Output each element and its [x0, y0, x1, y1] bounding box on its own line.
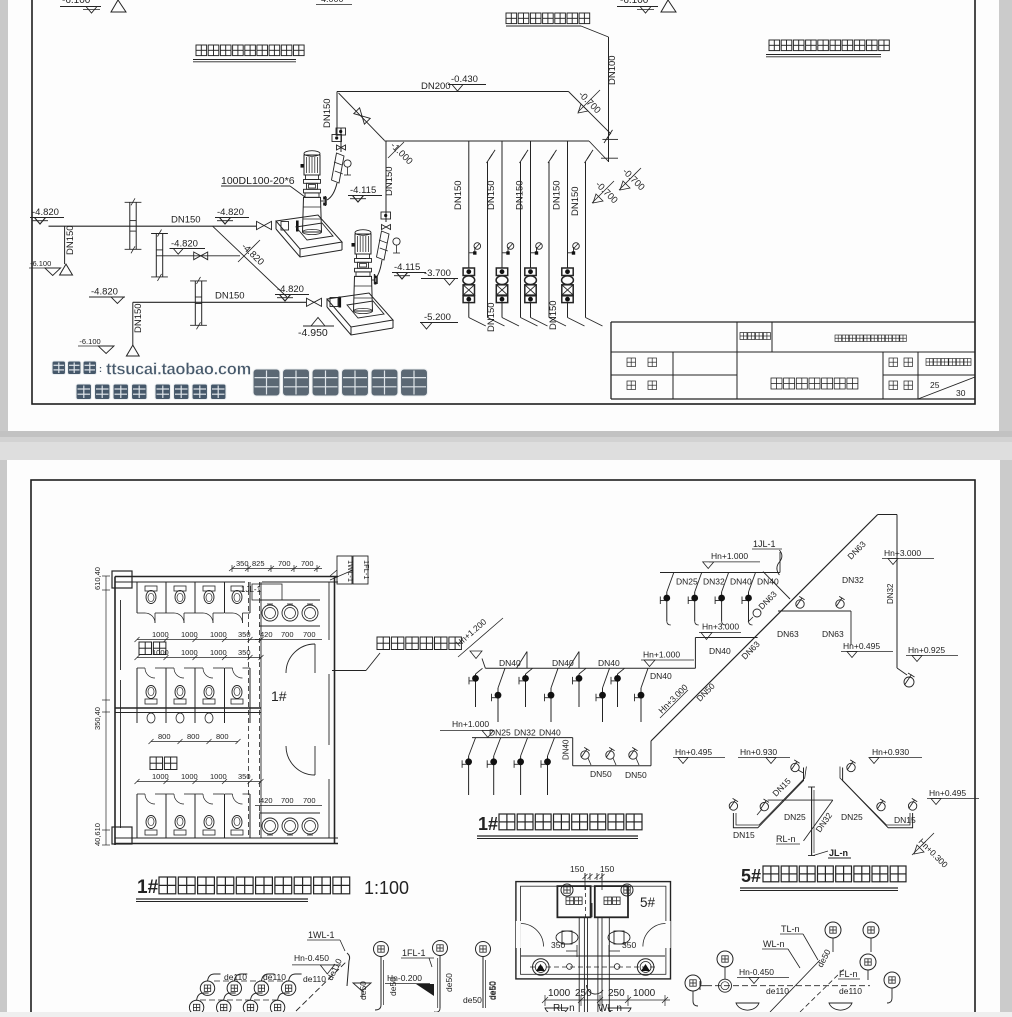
svg-text:1000: 1000 [152, 772, 169, 781]
svg-text:Hn+0.495: Hn+0.495 [843, 641, 880, 651]
DN100 riser to roof tank [608, 37, 610, 162]
gate valve on diagonal [354, 108, 370, 124]
riser main 2 [501, 141, 503, 268]
svg-text:-6.100: -6.100 [62, 0, 91, 6]
svg-text:150: 150 [600, 864, 614, 874]
5# right C run [843, 768, 913, 828]
svg-text:DN150: DN150 [171, 215, 201, 226]
svg-text:700: 700 [303, 796, 316, 805]
drop from DN200 left end [336, 92, 338, 137]
shower faucet [606, 751, 614, 759]
branch B header [472, 737, 573, 739]
toilet r3c3 [203, 830, 215, 835]
toilet r2c1 [145, 699, 157, 704]
svg-text:1000: 1000 [181, 648, 198, 657]
room inner partition [260, 582, 262, 838]
svg-text:DN40: DN40 [552, 658, 574, 668]
svg-text:700: 700 [303, 630, 316, 639]
svg-text:de50: de50 [444, 973, 454, 992]
sheet 2 [7, 460, 1000, 1012]
svg-text:DN25: DN25 [841, 812, 863, 822]
svg-text:Hn+1.000: Hn+1.000 [711, 551, 748, 561]
svg-text:250: 250 [608, 988, 625, 999]
svg-text:1#: 1# [271, 688, 287, 704]
stall row 2 [136, 668, 138, 723]
toilet r3c2 [174, 830, 186, 835]
branch A header [485, 667, 695, 669]
svg-text:Hn+1.000: Hn+1.000 [452, 719, 489, 729]
pump base slab [327, 293, 393, 327]
svg-text:DN150: DN150 [552, 180, 563, 210]
plan walls [115, 576, 338, 578]
title domestic water pump diagram [769, 40, 780, 51]
pump motor [355, 230, 371, 236]
plumbing chase dashed [248, 582, 250, 838]
title block texts [740, 333, 747, 340]
squat fixtures row2 [189, 1000, 203, 1014]
label to roof fire tank [506, 13, 517, 24]
svg-text:-5.200: -5.200 [424, 312, 451, 323]
svg-text:150: 150 [570, 864, 584, 874]
pump casing [303, 197, 322, 232]
toilet r3c4 [231, 830, 243, 835]
title fire pump diagram [196, 45, 207, 56]
svg-text:-4.820: -4.820 [91, 287, 118, 298]
toilet r3c1 [145, 830, 157, 835]
5# cross line [768, 799, 833, 801]
svg-text:800: 800 [158, 732, 171, 741]
svg-text:DN63: DN63 [822, 629, 844, 639]
pump neck [357, 254, 370, 259]
svg-text:DN150: DN150 [486, 302, 497, 332]
svg-text:DN15: DN15 [894, 815, 916, 825]
dashed drain line 5# [706, 985, 870, 987]
svg-text:DN150: DN150 [453, 180, 464, 210]
5# door arcs [521, 924, 544, 947]
cluster D taps [667, 573, 674, 593]
pipe sleeve crossing 2 [151, 233, 168, 235]
shower faucet [629, 751, 637, 759]
pipe sleeve crossing 1 [125, 201, 142, 203]
svg-text:610,40: 610,40 [93, 567, 102, 590]
flange stack 2 [496, 268, 507, 276]
svg-text:-4.820: -4.820 [277, 284, 304, 295]
shower faucet [581, 751, 589, 759]
vent circle on diagonal [753, 609, 761, 617]
svg-text:1JL-1: 1JL-1 [753, 539, 776, 549]
row1 stall fronts and doors [137, 612, 145, 614]
svg-text:700: 700 [301, 559, 314, 568]
svg-text:DN150: DN150 [384, 166, 395, 196]
title block [611, 321, 975, 323]
triangle symbol top right [661, 0, 676, 12]
svg-text:DN63: DN63 [777, 629, 799, 639]
center shaft lines [578, 917, 580, 1012]
svg-text:DN50: DN50 [590, 769, 612, 779]
diagonal branch to pump header [339, 93, 385, 141]
middle wall [115, 707, 261, 709]
svg-text:-4.820: -4.820 [32, 207, 59, 218]
sink counter top [259, 599, 320, 601]
svg-text:30: 30 [956, 388, 966, 398]
pump2 feed drop from header [385, 141, 387, 222]
floor drains [533, 959, 550, 976]
svg-text:de110: de110 [839, 986, 862, 996]
riser main 4 [567, 141, 569, 268]
svg-text:Hn+0.930: Hn+0.930 [740, 747, 777, 757]
svg-text:1FL-1: 1FL-1 [362, 560, 371, 580]
diagonal from DN200 right end [569, 92, 612, 135]
apex to DN32 drop [878, 514, 897, 516]
pump2 check valve [377, 231, 390, 260]
svg-text:700: 700 [278, 559, 291, 568]
svg-text:700: 700 [281, 796, 294, 805]
dashed drain line [530, 966, 655, 968]
diagonal crossover -4.820 [213, 226, 287, 297]
shower stalls [557, 886, 590, 917]
svg-text:-3.700: -3.700 [424, 268, 451, 279]
end faucet [896, 653, 898, 668]
svg-text:DN25: DN25 [784, 812, 806, 822]
pipe sleeve crossing 3 [190, 280, 207, 282]
flange stack 1 [463, 268, 474, 276]
branch A taps lower [498, 668, 505, 688]
pump neck [306, 175, 319, 180]
svg-text:-4.950: -4.950 [298, 327, 328, 339]
svg-text:WL-n: WL-n [763, 939, 785, 949]
drop to -6.100 left [64, 226, 66, 264]
riser return 4 [585, 162, 587, 318]
svg-text:-6.100: -6.100 [79, 337, 100, 346]
svg-text:800: 800 [216, 732, 229, 741]
5# plan outer walls [516, 882, 671, 979]
pump outlet flange [372, 279, 378, 281]
1WL riser hook [347, 953, 350, 986]
urinal row below mid wall [147, 713, 155, 723]
svg-text:1WL-1: 1WL-1 [308, 930, 335, 940]
svg-text:Hn-0.450: Hn-0.450 [294, 953, 329, 963]
toilet r1c3 [203, 586, 215, 591]
svg-text:5#: 5# [640, 895, 656, 910]
svg-text:Hn-0.450: Hn-0.450 [739, 967, 774, 977]
WL FL riser tags [337, 556, 352, 584]
pipe end triangle left [60, 264, 73, 275]
svg-text:FL-n: FL-n [839, 969, 858, 979]
svg-text:JL-n: JL-n [829, 848, 848, 858]
5# interior line [521, 955, 665, 957]
pressure gauge pump1 [344, 160, 351, 167]
cluster E ledge [778, 610, 851, 612]
svg-text:DN150: DN150 [65, 225, 76, 255]
sheet1 frame border [32, 0, 975, 404]
svg-text:DN40: DN40 [562, 739, 571, 760]
svg-text:DN150: DN150 [322, 98, 333, 128]
toilet r2c2 [174, 699, 186, 704]
nuwei label [139, 642, 152, 655]
svg-text:Hn+0.495: Hn+0.495 [929, 788, 966, 798]
svg-text:1000: 1000 [633, 988, 656, 999]
svg-text:de110: de110 [766, 986, 789, 996]
stall row 3 [136, 794, 138, 838]
pump1 check valve assembly [340, 128, 342, 152]
svg-text:Hn+0.925: Hn+0.925 [908, 645, 945, 655]
svg-text:DN25: DN25 [489, 728, 511, 738]
svg-text:DN150: DN150 [548, 300, 559, 330]
svg-text:-0.430: -0.430 [451, 74, 478, 85]
diagonal to DN100 riser [589, 141, 609, 162]
svg-text:420: 420 [260, 796, 273, 805]
toilet r1c4 [231, 586, 243, 591]
squat fixtures row1 [200, 981, 214, 995]
valve square pump1 top [336, 128, 346, 135]
svg-text:1000: 1000 [152, 630, 169, 639]
svg-text:-4.115: -4.115 [394, 262, 420, 273]
sheet 1 [8, 0, 999, 431]
sheet2 frame border [31, 480, 975, 1017]
pump suction header pipe [385, 140, 590, 142]
svg-text:DN25: DN25 [676, 577, 698, 587]
wall columns [112, 571, 132, 588]
svg-text:1:100: 1:100 [364, 878, 409, 898]
cluster D drop diagonal [763, 572, 790, 599]
svg-text:100DL100-20*6: 100DL100-20*6 [221, 175, 295, 187]
fixtures 5# drainage [825, 922, 841, 938]
chevron near riser top right [604, 134, 610, 143]
valve on drop [332, 135, 342, 142]
pipe DN200 header [337, 91, 569, 93]
shower corner symbols [561, 884, 573, 896]
svg-text:1000: 1000 [210, 648, 227, 657]
dashed diagonals 5# drainage [770, 960, 820, 1012]
cluster D header [660, 572, 780, 574]
toilet r2c3 [203, 699, 215, 704]
5# left C run [733, 768, 803, 828]
riser main 3 [530, 141, 532, 268]
svg-text:350,40: 350,40 [93, 707, 102, 730]
svg-text:DN200: DN200 [421, 81, 451, 92]
svg-text:DN32: DN32 [514, 728, 536, 738]
pipe jogs [517, 652, 528, 669]
svg-text:de50: de50 [488, 981, 498, 1000]
toilet r1c1 [145, 586, 157, 591]
sink counter bottom [259, 812, 320, 814]
toilet r1c2 [174, 586, 186, 591]
svg-text:1000: 1000 [548, 988, 571, 999]
svg-text:DN40: DN40 [539, 728, 561, 738]
main suction line lower [133, 301, 306, 303]
gate valve to pump1 [257, 221, 272, 229]
flange stack 3 [525, 268, 536, 276]
svg-text:420: 420 [260, 630, 273, 639]
pump motor [304, 151, 320, 157]
svg-text:-4.115: -4.115 [350, 185, 376, 196]
DN40 drop [572, 738, 574, 766]
svg-text:Hn+3.000: Hn+3.000 [702, 622, 739, 632]
pipe end triangle lower [126, 345, 139, 356]
svg-text:Hn+3.000: Hn+3.000 [884, 548, 921, 558]
svg-text:de50: de50 [358, 981, 368, 1000]
main riser diagonal [650, 741, 652, 766]
svg-text:800: 800 [187, 732, 200, 741]
triangle symbol top left [111, 0, 126, 12]
svg-text:25: 25 [930, 380, 940, 390]
pump outlet flange [321, 200, 327, 202]
svg-text:DN50: DN50 [625, 770, 647, 780]
pump casing [354, 276, 373, 311]
svg-text:Hn+0.930: Hn+0.930 [872, 747, 909, 757]
svg-text:1000: 1000 [181, 772, 198, 781]
svg-text:-6.100: -6.100 [620, 0, 649, 6]
svg-text:350: 350 [622, 940, 636, 950]
flange stack 4 [562, 268, 573, 276]
svg-text:de50: de50 [388, 977, 398, 996]
svg-text:DN32: DN32 [703, 577, 725, 587]
riser return 2 [520, 162, 522, 318]
svg-text:DN40: DN40 [730, 577, 752, 587]
svg-text:-6.100: -6.100 [30, 259, 51, 268]
riser main 1 [468, 141, 470, 268]
svg-text:700: 700 [281, 630, 294, 639]
watermark tangtang big [253, 369, 280, 396]
svg-text:-4.820: -4.820 [217, 207, 244, 218]
svg-text:Hn+0.495: Hn+0.495 [675, 747, 712, 757]
branch C ledge [694, 638, 696, 669]
svg-text:Hn+1.000: Hn+1.000 [643, 650, 680, 660]
svg-text:de110: de110 [263, 972, 286, 982]
dashed drain mains [296, 962, 346, 1011]
svg-text:-4.820: -4.820 [171, 239, 198, 250]
svg-text:40,610: 40,610 [93, 823, 102, 846]
branch A taps upper [476, 668, 483, 674]
svg-text:DN100: DN100 [607, 55, 618, 85]
funnel drain [353, 983, 371, 991]
svg-text:RL-n: RL-n [776, 834, 796, 844]
svg-text:de110: de110 [303, 974, 326, 984]
branch B taps [469, 738, 476, 756]
svg-text:DN40: DN40 [598, 658, 620, 668]
watermark taobao line1 [52, 361, 66, 375]
svg-text:-4.000: -4.000 [318, 0, 344, 4]
door arcs right wall [286, 644, 315, 673]
svg-text:350: 350 [551, 940, 565, 950]
svg-text:DN40: DN40 [709, 646, 731, 656]
svg-text:1FL-1: 1FL-1 [402, 948, 426, 958]
riser return 1 [487, 162, 489, 318]
stall row 1 [136, 582, 138, 613]
nanwei label [150, 757, 163, 770]
toilet r2c4 [231, 699, 243, 704]
tub fixtures [556, 931, 578, 944]
svg-text:1#: 1# [478, 814, 498, 834]
branch B lower run [573, 765, 651, 767]
svg-text:ttsucai.taobao.com: ttsucai.taobao.com [106, 361, 251, 379]
svg-text:de50: de50 [463, 995, 482, 1005]
gate valve to pump2 [307, 298, 322, 306]
main suction line upper [49, 225, 257, 227]
right gray edge strip [999, 0, 1012, 1012]
level -4.950 [311, 318, 325, 327]
svg-text:5#: 5# [741, 866, 761, 886]
svg-text:DN150: DN150 [215, 291, 245, 302]
valve square pump2 [381, 212, 391, 219]
svg-text:350: 350 [236, 559, 249, 568]
pressure gauge pump2 [393, 238, 400, 245]
gap between sheets [0, 431, 1012, 460]
svg-text:1JL-1: 1JL-1 [241, 585, 262, 594]
svg-text:1000: 1000 [152, 648, 169, 657]
bottom trap arc [586, 985, 603, 994]
left gray edge strip [0, 0, 8, 1012]
svg-text:1000: 1000 [210, 772, 227, 781]
fixture circles mid [374, 942, 389, 957]
svg-text:1000: 1000 [181, 630, 198, 639]
half basins [736, 1003, 759, 1010]
drop to -6.100 lower [132, 302, 134, 345]
svg-text:DN32: DN32 [886, 583, 895, 604]
5# center riser [811, 787, 813, 856]
riser return 3 [548, 162, 550, 318]
svg-text:TL-n: TL-n [781, 924, 800, 934]
svg-text:DN32: DN32 [842, 575, 864, 585]
svg-text:1000: 1000 [210, 630, 227, 639]
pump base slab [276, 215, 342, 249]
svg-text:DN150: DN150 [570, 186, 581, 216]
svg-text::: : [99, 364, 102, 374]
svg-text:825: 825 [252, 559, 265, 568]
svg-text:1#: 1# [137, 877, 159, 898]
bottom curve hooks [375, 1005, 381, 1010]
svg-text:DN150: DN150 [133, 303, 144, 333]
svg-text:DN15: DN15 [733, 830, 755, 840]
watermark taobao line2 [76, 384, 92, 400]
kitchen water label [377, 637, 390, 650]
svg-text:RL-n: RL-n [553, 1003, 575, 1012]
svg-text:DN40: DN40 [650, 671, 672, 681]
